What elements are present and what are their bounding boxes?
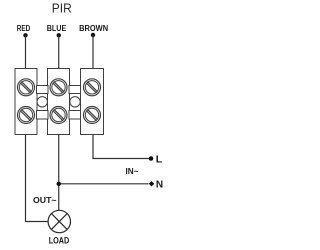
screw 4 bottom of segment 2: [50, 107, 67, 124]
svg-text:BLUE: BLUE: [47, 24, 67, 33]
screw 5 top of segment 3: [84, 79, 101, 96]
node BROWN terminal dot: [91, 33, 95, 37]
node BLUE terminal dot: [57, 33, 61, 37]
terminal block web bridge top between segment 2 and 3: [69, 86, 81, 94]
screw 1 top of segment 1: [18, 79, 35, 96]
screw 2 bottom of segment 1: [18, 107, 35, 124]
screw 6 bottom of segment 3: [84, 107, 101, 124]
svg-text:N: N: [156, 180, 163, 191]
terminal block web bridge bottom between segment 2 and 3: [69, 111, 81, 120]
terminal block mounting hole between segment 1 and 2: [37, 97, 47, 107]
wire blue lead down to terminal block: [58, 35, 60, 68]
terminal block TB1 body segment 1: [15, 69, 37, 135]
node RED terminal dot: [23, 33, 27, 37]
wire red lead down to terminal block: [25, 35, 27, 68]
wire brown lead down to terminal block: [92, 35, 94, 69]
svg-text:BROWN: BROWN: [79, 24, 108, 33]
node L terminal dot: [149, 156, 154, 161]
terminal block web bridge bottom between segment 1 and 2: [37, 111, 49, 120]
svg-text:OUT~: OUT~: [33, 195, 57, 205]
svg-text:IN~: IN~: [126, 166, 139, 176]
terminal block TB1 body segment 2: [48, 69, 70, 135]
svg-text:RED: RED: [17, 24, 31, 33]
wire blue from terminal block down to lamp: [58, 135, 60, 211]
screw 3 top of segment 2: [50, 79, 67, 96]
svg-text:PIR: PIR: [52, 2, 72, 16]
wire neutral from junction to N: [59, 183, 149, 185]
terminal block web bridge top between segment 1 and 2: [37, 86, 49, 94]
lamp LOAD symbol circle with cross: [48, 210, 70, 232]
junction dot on blue wire: [57, 182, 61, 186]
wire red from terminal block down and right to lamp: [26, 135, 49, 222]
node N terminal diamond: [149, 181, 154, 186]
terminal block mounting hole between segment 2 and 3: [70, 97, 80, 107]
svg-text:LOAD: LOAD: [49, 236, 70, 247]
svg-text:L: L: [156, 154, 163, 166]
terminal block TB1 body segment 3: [81, 69, 104, 135]
wire brown from terminal block down and right to L: [93, 135, 149, 159]
